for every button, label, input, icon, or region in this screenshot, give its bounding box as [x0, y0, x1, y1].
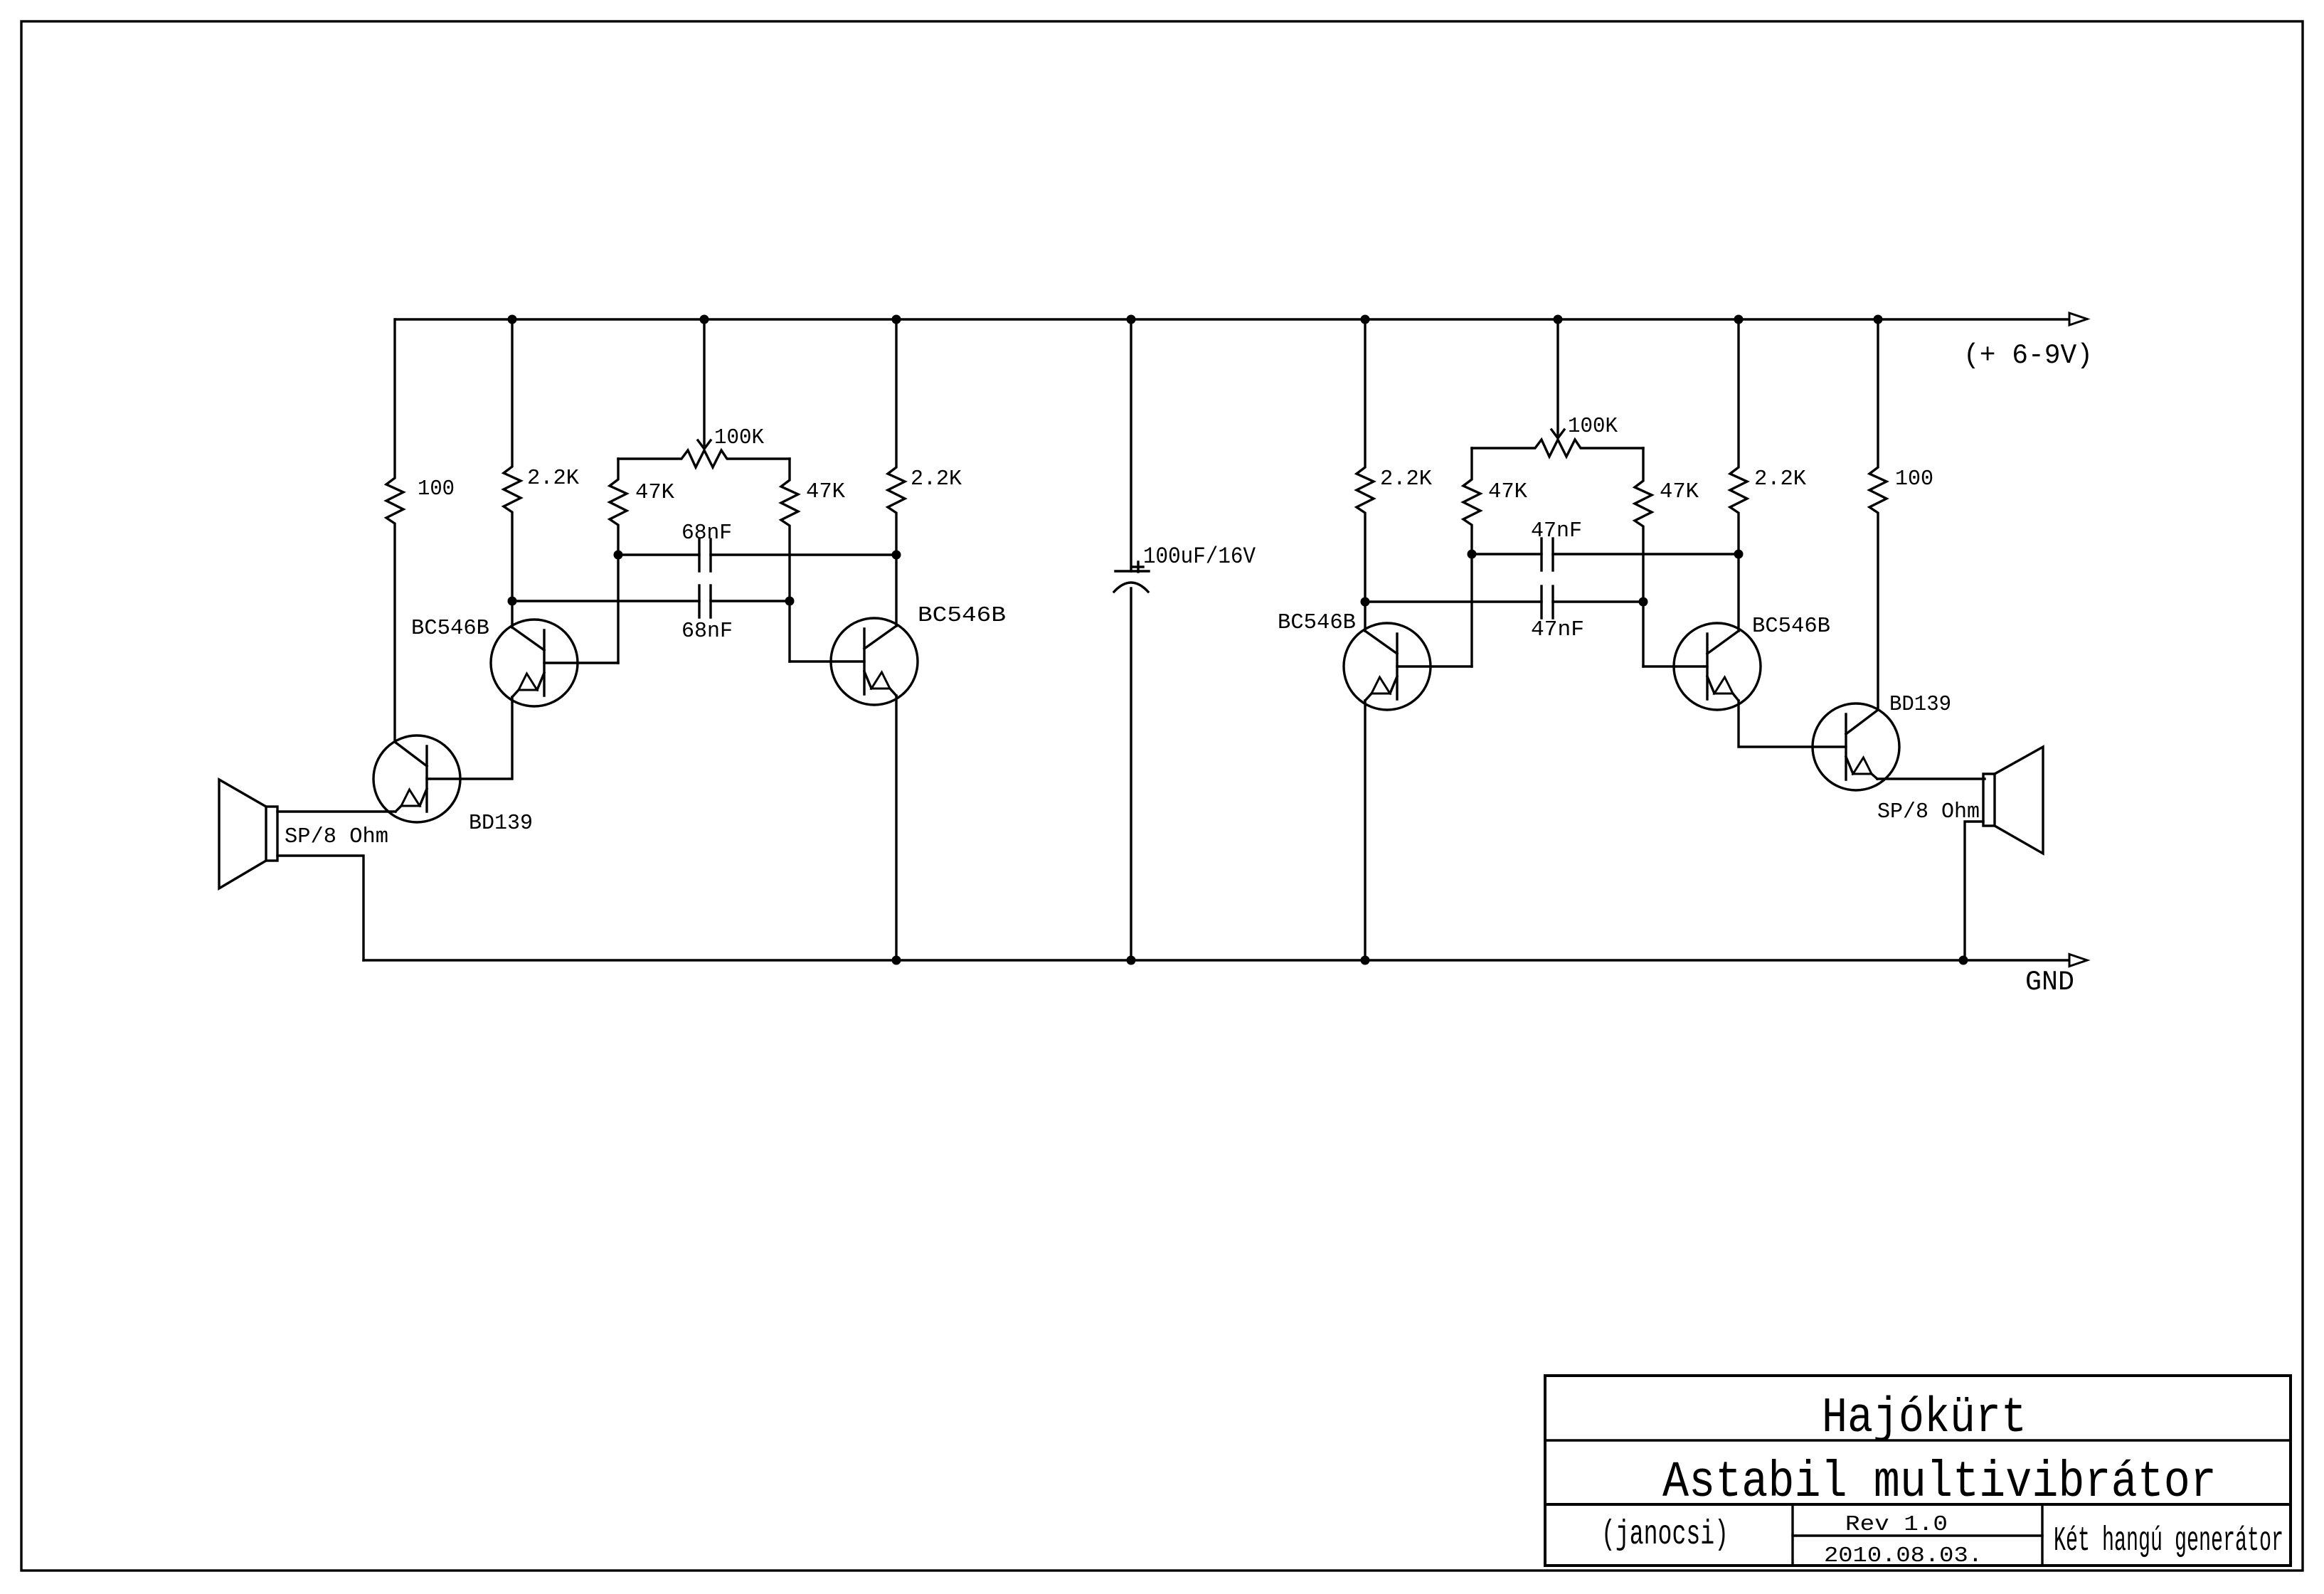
svg-text:GND: GND — [2025, 967, 2074, 998]
potentiometer 100K (left) body — [618, 450, 790, 467]
wire Q1 emitter to BD139 base — [427, 697, 512, 779]
svg-text:(janocsi): (janocsi) — [1601, 1516, 1729, 1554]
resistor 100 (left) — [386, 319, 403, 742]
title block column divider 2 — [2041, 1504, 2043, 1566]
svg-text:2.2K: 2.2K — [1754, 467, 1806, 492]
svg-text:100: 100 — [1895, 467, 1933, 492]
junction dots on VCC rail — [508, 315, 517, 324]
title block row divider 1 — [1545, 1439, 2291, 1441]
capacitor 47nF (upper) — [1540, 538, 1542, 570]
speaker SP/8 Ohm (left) — [266, 807, 277, 861]
wire BD139 emitter to speaker — [277, 810, 396, 812]
wire Q1 base lead — [544, 661, 618, 664]
junction dot 47K / upper 47nF wire — [1468, 550, 1477, 559]
title block rev/date divider — [1793, 1534, 2042, 1536]
wire speaker bottom terminal to GND — [277, 856, 364, 960]
svg-text:Astabil multivibrátor: Astabil multivibrátor — [1662, 1455, 2217, 1511]
wire speaker bottom terminal to GND — [1965, 822, 1983, 960]
svg-text:Hajókürt: Hajókürt — [1822, 1391, 2027, 1447]
svg-text:2.2K: 2.2K — [911, 467, 962, 492]
svg-text:2010.08.03.: 2010.08.03. — [1824, 1543, 1983, 1568]
svg-text:BD139: BD139 — [469, 811, 533, 836]
resistor 100 (right) — [1869, 319, 1887, 710]
svg-text:BC546B: BC546B — [1752, 614, 1830, 639]
svg-text:47nF: 47nF — [1531, 519, 1582, 543]
potentiometer 100K (right) body — [1472, 440, 1643, 457]
svg-text:BC546B: BC546B — [918, 603, 1006, 628]
wire VCC top rail — [396, 318, 2069, 320]
svg-text:100K: 100K — [714, 425, 764, 450]
title block column divider 1 — [1791, 1504, 1793, 1566]
resistor 47K (right ckt, left) — [1463, 448, 1480, 666]
capacitor 100uF/16V electrolytic — [1130, 319, 1132, 571]
transistor BD139 (left) — [373, 735, 460, 822]
wire Q4 emitter to BD139 base — [1739, 701, 1846, 747]
resistor 47K (left ckt, right) — [781, 459, 798, 661]
wire Q4 base lead — [1643, 665, 1707, 667]
arrow VCC rail head — [2069, 313, 2087, 325]
title block row divider 2 — [1545, 1503, 2291, 1506]
svg-text:47K: 47K — [635, 480, 674, 505]
transistor Q2 BC546B (left ckt right) — [831, 618, 918, 705]
junction dot 47K-left / upper 68nF wire — [614, 551, 623, 560]
transistor Q1 BC546B (left) — [491, 620, 578, 706]
resistor 47K (left ckt, left) — [610, 459, 627, 663]
capacitor 47nF (lower) — [1540, 586, 1542, 618]
wire BD139 emitter to speaker — [1877, 777, 1985, 780]
potentiometer 100K (left) wiper arrow — [703, 319, 705, 445]
wire Q2 emitter to GND — [895, 696, 897, 960]
wire upper 47nF net — [1472, 553, 1542, 555]
title block frame — [1545, 1376, 2291, 1566]
transistor Q3 BC546B (right ckt left) — [1344, 623, 1431, 710]
svg-text:68nF: 68nF — [681, 619, 733, 644]
svg-text:100K: 100K — [1568, 414, 1618, 439]
junction dot 2.2K / lower 47nF wire — [1361, 597, 1370, 607]
svg-text:Rev 1.0: Rev 1.0 — [1845, 1512, 1948, 1537]
svg-text:2.2K: 2.2K — [1380, 467, 1432, 492]
svg-text:47K: 47K — [1660, 479, 1699, 504]
svg-text:Két hangú generátor: Két hangú generátor — [2054, 1522, 2283, 1561]
plus sign of electrolytic — [1137, 562, 1139, 572]
speaker SP/8 Ohm (right) — [1983, 774, 1995, 826]
svg-text:47K: 47K — [1488, 479, 1527, 504]
wire Q3 base lead — [1397, 665, 1472, 667]
junction dot 2.2K / upper 47nF wire — [1734, 550, 1744, 559]
svg-text:BD139: BD139 — [1889, 692, 1951, 717]
resistor 2.2K (left-left) — [504, 319, 521, 627]
junction dot collector branch / lower 68nF wire — [508, 597, 517, 606]
capacitor 68nF (upper) — [698, 539, 700, 571]
wire upper 68nF net — [618, 553, 699, 556]
svg-text:47nF: 47nF — [1531, 617, 1584, 642]
wire Q2 base lead — [790, 660, 864, 662]
resistor 2.2K (right ckt, left) — [1357, 319, 1374, 631]
arrow GND rail head — [2069, 955, 2087, 967]
transistor Q4 BC546B (right ckt right) — [1674, 623, 1761, 710]
svg-text:100uF/16V: 100uF/16V — [1143, 543, 1256, 570]
junction dot 47K-right / lower 68nF wire — [785, 597, 795, 606]
svg-text:47K: 47K — [806, 479, 845, 504]
resistor 2.2K (left ckt, right) — [888, 319, 905, 626]
junction dots on GND rail — [892, 956, 901, 965]
wire Q3 emitter to GND — [1364, 701, 1366, 960]
junction dot 2.2K-right / upper 68nF wire — [892, 551, 901, 560]
svg-text:BC546B: BC546B — [411, 616, 489, 641]
junction dot 47K / lower 47nF wire — [1639, 597, 1648, 607]
svg-text:BC546B: BC546B — [1278, 610, 1356, 635]
svg-text:100: 100 — [418, 477, 455, 501]
svg-text:2.2K: 2.2K — [527, 466, 579, 491]
resistor 2.2K (right ckt, right) — [1730, 319, 1747, 631]
wire lower 68nF net — [512, 600, 699, 602]
svg-text:68nF: 68nF — [681, 521, 732, 546]
transistor BD139 (right) — [1813, 703, 1899, 790]
potentiometer 100K (right) wiper arrow — [1556, 319, 1559, 435]
wire lower 47nF net — [1365, 600, 1542, 602]
wire GND bottom rail — [364, 959, 2069, 961]
svg-text:SP/8 Ohm: SP/8 Ohm — [285, 824, 388, 849]
svg-text:(+ 6-9V): (+ 6-9V) — [1963, 340, 2093, 371]
capacitor 68nF (lower) — [698, 585, 700, 617]
resistor 47K (right ckt, right) — [1635, 448, 1652, 666]
